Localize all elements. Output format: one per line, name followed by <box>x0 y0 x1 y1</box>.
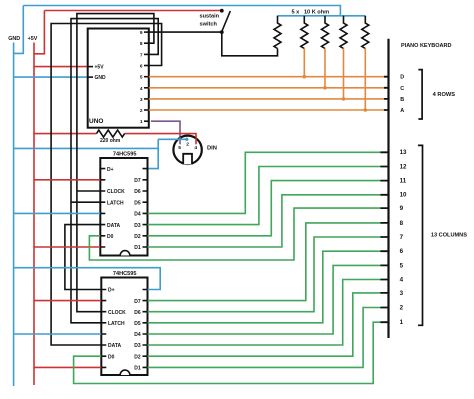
keyboard row stubs <box>384 77 389 110</box>
resistor R6 220 ohm <box>97 130 125 137</box>
wire +5V top feed <box>34 11 44 54</box>
wire U2 D1 to column 10 <box>148 195 381 247</box>
svg-text:D4: D4 <box>134 212 141 218</box>
pin +5V tick UNO <box>88 66 93 68</box>
svg-text:GND: GND <box>95 75 107 81</box>
wire U3 D1 to column 2 <box>148 308 381 368</box>
svg-text:5 x 10 K ohm: 5 x 10 K ohm <box>292 9 330 15</box>
svg-text:10: 10 <box>400 192 407 199</box>
svg-text:2: 2 <box>140 108 143 114</box>
pin 4 UNO <box>144 87 149 89</box>
svg-text:UNO: UNO <box>89 118 103 125</box>
wire +5V rail with 220 ohm to DIN pin4 <box>34 133 97 135</box>
connector J1 DIN circle <box>173 136 201 164</box>
wire U2 D0 loop to column 9 <box>89 208 380 260</box>
wire U3 D3 to column 4 <box>148 280 381 346</box>
svg-text:DATA: DATA <box>107 223 121 229</box>
svg-text:B: B <box>400 97 404 103</box>
pin ticks U2 left <box>100 169 105 247</box>
svg-text:220 ohm: 220 ohm <box>100 138 121 144</box>
svg-text:4: 4 <box>140 86 143 92</box>
switch SW1 sustain: pivot dot <box>220 30 224 34</box>
svg-text:CLOCK: CLOCK <box>107 189 125 195</box>
wire GND to U2 left <box>14 212 101 214</box>
pin ticks U3 left <box>101 290 106 368</box>
svg-text:D6: D6 <box>134 189 141 195</box>
wire latch branch to 74HC595 #1 <box>71 201 100 203</box>
wire R4 to row B <box>343 49 345 99</box>
svg-text:D5: D5 <box>134 321 141 327</box>
svg-text:1: 1 <box>140 119 143 125</box>
svg-text:2: 2 <box>186 142 189 148</box>
junction DIN pin2 dot <box>185 138 188 141</box>
svg-text:D+: D+ <box>107 167 114 173</box>
wire GND top rail <box>23 6 340 16</box>
svg-text:sustain: sustain <box>200 14 220 20</box>
svg-text:9: 9 <box>140 30 143 36</box>
pin ticks U3 right <box>143 290 148 368</box>
svg-text:4: 4 <box>194 145 197 151</box>
wire resistor bank top rail <box>278 15 366 17</box>
svg-text:D7: D7 <box>134 178 141 184</box>
pin ticks U2 right <box>143 169 148 247</box>
pin DIN 2 dot (blue wire end) <box>185 138 188 141</box>
wire UNO pin8 loop to shift register clocks <box>77 14 154 312</box>
svg-text:D4: D4 <box>134 332 141 338</box>
bracket 13 columns <box>418 145 423 325</box>
svg-text:CLOCK: CLOCK <box>108 310 126 316</box>
svg-text:D3: D3 <box>134 343 141 349</box>
svg-text:7: 7 <box>400 234 404 241</box>
wire R5 to row A <box>364 49 366 111</box>
switch SW1 contact dot on +5V rail <box>220 9 224 13</box>
svg-text:LATCH: LATCH <box>107 200 124 206</box>
IC U3 74HC595 #2 box <box>101 278 147 376</box>
svg-text:D1: D1 <box>134 366 141 372</box>
svg-text:C: C <box>400 86 404 92</box>
svg-text:D2: D2 <box>134 234 141 240</box>
pin 3 UNO <box>144 98 149 100</box>
wire U2 D4 to column 13 <box>148 152 381 213</box>
wire UNO pin 9 to sustain switch <box>149 31 222 33</box>
pin 2 UNO <box>144 109 149 111</box>
svg-text:8: 8 <box>400 220 404 227</box>
svg-text:6: 6 <box>400 248 404 255</box>
resistor R2 10K <box>301 16 308 49</box>
connector J1 DIN key notch <box>183 154 192 165</box>
svg-text:D7: D7 <box>134 299 141 305</box>
wire GND loop to U3 D+ right <box>14 268 161 290</box>
wire U2 D3 to column 12 <box>148 167 381 225</box>
junction R3 row C <box>323 86 327 90</box>
wire R3 to row C <box>324 49 326 88</box>
resistor R1 10K <box>274 16 281 49</box>
svg-text:1: 1 <box>400 319 404 326</box>
svg-text:LATCH: LATCH <box>108 321 125 327</box>
wire +5V to U2 top left <box>34 179 100 181</box>
svg-text:7: 7 <box>140 52 143 58</box>
svg-text:D0: D0 <box>108 354 115 360</box>
wire UNO pin1 to DIN pin5 (MIDI data) <box>151 121 180 144</box>
wire U3 D7 to column 8 <box>148 223 381 301</box>
svg-text:2: 2 <box>400 304 404 311</box>
svg-text:D3: D3 <box>134 223 141 229</box>
wire U3 D4 to column 5 <box>148 265 381 334</box>
resistor R4 10K <box>340 16 347 49</box>
svg-text:4 ROWS: 4 ROWS <box>433 92 456 98</box>
keyboard column stubs <box>380 152 388 322</box>
IC U2 74HC595 #1 box <box>100 158 147 256</box>
wire U2 D2 to column 11 <box>148 181 381 236</box>
junction R2 row D <box>303 75 307 79</box>
wire +5V to U3 top left <box>34 300 101 302</box>
svg-text:5: 5 <box>140 75 143 81</box>
switch SW1 arm <box>222 11 231 32</box>
wire GND bus vertical <box>13 43 15 387</box>
wire U3 D5 to column 6 <box>148 251 381 323</box>
wire 74HC595 #1 DATA chain to #2 D+ <box>65 225 101 290</box>
pin 7 UNO <box>144 53 149 55</box>
wire row B UNO pin3 to keyboard <box>149 98 384 100</box>
bracket 4 rows <box>418 70 422 119</box>
svg-text:DATA: DATA <box>108 343 122 349</box>
svg-text:D2: D2 <box>134 354 141 360</box>
svg-text:PIANO KEYBOARD: PIANO KEYBOARD <box>401 43 451 49</box>
svg-text:A: A <box>400 108 404 114</box>
wire +5V top rail to sustain switch <box>44 10 221 12</box>
svg-text:3: 3 <box>140 97 143 103</box>
junction R4 row B <box>342 97 346 101</box>
wire U3 D6 to column 7 <box>148 237 381 312</box>
svg-text:D1: D1 <box>134 245 141 251</box>
svg-text:13: 13 <box>400 149 407 156</box>
pin 6 UNO <box>144 65 149 67</box>
svg-text:5: 5 <box>400 262 404 269</box>
svg-text:6: 6 <box>140 64 143 70</box>
svg-text:74HC595: 74HC595 <box>113 271 137 277</box>
pin GND tick UNO <box>88 76 93 78</box>
svg-text:5: 5 <box>178 145 181 151</box>
svg-text:D5: D5 <box>134 200 141 206</box>
wire GND top feed <box>14 6 24 54</box>
svg-text:9: 9 <box>400 205 404 212</box>
svg-text:4: 4 <box>400 276 404 283</box>
svg-text:GND: GND <box>8 36 20 42</box>
pin DIN 4 tick (red wire end) <box>195 138 197 145</box>
pin 8 UNO <box>144 42 149 44</box>
svg-text:D+: D+ <box>108 288 115 294</box>
svg-text:13 COLUMNS: 13 COLUMNS <box>431 232 467 238</box>
svg-text:D0: D0 <box>107 234 114 240</box>
resistor R3 10K <box>322 16 329 49</box>
wire +5V to U2 bottom left <box>34 246 100 248</box>
piano keyboard bracket line <box>387 39 389 338</box>
wire UNO pin6 loop to 74HC595 #2 DATA <box>51 24 162 346</box>
pin 9 UNO <box>144 31 149 33</box>
wire +5V to U3 bottom left <box>34 366 101 368</box>
svg-text:11: 11 <box>400 178 407 185</box>
svg-text:+5V: +5V <box>95 65 105 71</box>
wire U3 D2 to column 3 <box>148 293 381 356</box>
wire row C UNO pin4 to keyboard <box>149 87 384 89</box>
wire UNO pin7 loop to shift register latches <box>71 19 158 323</box>
resistor R5 10K <box>362 16 369 49</box>
wire sustain switch to pull-up resistor R1 <box>222 32 278 56</box>
wire +5V to UNO <box>34 66 88 68</box>
wire row D UNO pin5 to keyboard <box>149 76 384 78</box>
pin 5 UNO <box>144 76 149 78</box>
wire clock branch to 74HC595 #1 <box>77 190 100 192</box>
pin 1 UNO <box>144 120 149 122</box>
svg-text:D6: D6 <box>134 310 141 316</box>
wire GND to UNO <box>14 76 88 78</box>
svg-text:DIN: DIN <box>207 145 217 151</box>
pin DIN 5 tick (purple wire end) <box>179 137 181 144</box>
IC U3 notch <box>120 370 130 375</box>
wire GND to DIN pin2 <box>14 147 159 149</box>
wire row A UNO pin2 to keyboard <box>149 109 384 111</box>
svg-text:+5V: +5V <box>28 36 38 42</box>
wire U3 D0 loop to column 1 <box>74 322 381 383</box>
svg-text:8: 8 <box>140 41 143 47</box>
svg-text:3: 3 <box>400 290 404 297</box>
wire GND to U3 left <box>14 333 102 335</box>
op-amp U1 UNO board box <box>88 29 149 128</box>
wire R2 to row D <box>303 49 305 77</box>
pin DIN 2 wire (blue) <box>170 138 186 140</box>
svg-text:74HC595: 74HC595 <box>113 151 137 157</box>
svg-text:switch: switch <box>200 21 218 27</box>
svg-text:D: D <box>400 75 404 81</box>
IC U2 notch <box>120 251 130 256</box>
junction R5 row A <box>364 108 368 112</box>
svg-text:12: 12 <box>400 163 407 170</box>
wire +5V bus vertical <box>33 43 35 386</box>
